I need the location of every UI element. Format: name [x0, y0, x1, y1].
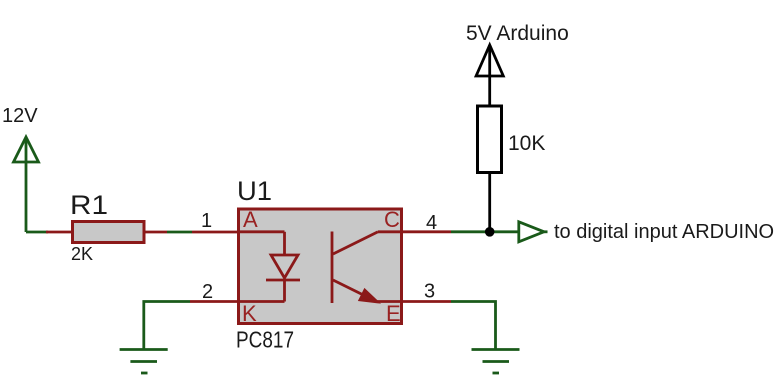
pin 2 stub U1 [190, 300, 239, 303]
pin number 4 [426, 212, 437, 234]
pin 1 stub U1 [192, 231, 239, 234]
svg-text:2: 2 [202, 281, 213, 303]
pin number 1 [201, 210, 212, 232]
junction node dot [485, 227, 495, 237]
resistor R1 [73, 222, 145, 243]
label U1 [237, 176, 272, 206]
pin number 3 [424, 281, 435, 303]
transistor Q-photo inside U1 [332, 232, 402, 304]
pin name A [243, 207, 258, 232]
svg-text:to digital input ARDUINO: to digital input ARDUINO [554, 221, 774, 243]
svg-text:A: A [243, 207, 258, 232]
wire R1 to U1 pin 1 [167, 231, 192, 234]
svg-text:U1: U1 [237, 176, 272, 206]
value PC817 [236, 327, 294, 353]
pin number 2 [202, 281, 213, 303]
resistor 10K [478, 106, 502, 173]
wire pin2 to ground [144, 302, 190, 350]
label R1 [70, 190, 108, 220]
pin stub R1 right [144, 231, 167, 234]
wire junction to 10K (black) [488, 171, 491, 232]
svg-text:K: K [242, 301, 257, 326]
pin 3 stub U1 [402, 300, 452, 303]
pin 4 stub U1 [402, 230, 452, 233]
power terminal 12V [14, 137, 39, 232]
value 2K [71, 244, 93, 264]
svg-text:3: 3 [424, 281, 435, 303]
svg-text:PC817: PC817 [236, 327, 294, 353]
pin stub R1 left [46, 231, 73, 234]
wire pin3 to ground [451, 302, 496, 350]
node 12V label [2, 105, 38, 127]
svg-text:C: C [384, 207, 400, 232]
wire pin4 to output [451, 230, 519, 233]
ground left [120, 350, 168, 374]
label to digital input ARDUINO [554, 221, 774, 243]
svg-text:12V: 12V [2, 105, 38, 127]
op-amp U1 body (PC817 optocoupler) [239, 209, 402, 324]
svg-text:5V Arduino: 5V Arduino [466, 22, 569, 45]
value 10K [508, 132, 545, 155]
output terminal to Arduino [519, 222, 548, 242]
pin name E [386, 301, 401, 326]
svg-text:2K: 2K [71, 244, 93, 264]
svg-text:R1: R1 [70, 190, 108, 220]
pin name K [242, 301, 257, 326]
power terminal 5V [476, 45, 503, 76]
svg-text:4: 4 [426, 212, 437, 234]
node 5V Arduino label [466, 22, 569, 45]
svg-text:10K: 10K [508, 132, 545, 155]
pin name C [384, 207, 400, 232]
ground right [472, 350, 520, 374]
svg-text:E: E [386, 301, 401, 326]
wire 10K to 5V terminal (black) [488, 45, 491, 107]
diode D-LED inside U1 [239, 232, 300, 302]
wire 12V to R1 [26, 231, 48, 234]
svg-text:1: 1 [201, 210, 212, 232]
